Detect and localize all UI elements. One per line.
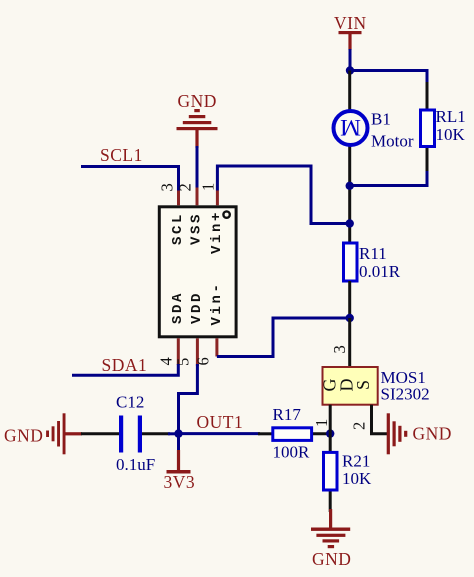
svg-text:SCL1: SCL1: [100, 145, 143, 165]
resistor RL1: [421, 82, 466, 173]
pin top of B1: [348, 71, 351, 111]
node junction OUT1/3V3: [174, 429, 182, 437]
svg-text:SDA1: SDA1: [102, 355, 148, 375]
svg-text:3V3: 3V3: [164, 472, 196, 492]
svg-text:VDD: VDD: [189, 291, 205, 324]
wire SDA1: [72, 364, 178, 375]
node junction gate: [326, 429, 334, 437]
svg-text:5: 5: [174, 358, 193, 366]
pin 5 stub: [196, 338, 199, 366]
svg-text:M: M: [340, 114, 361, 140]
pin bottom of R21: [329, 490, 332, 512]
pin 4 stub: [177, 338, 180, 365]
node junction drain: [346, 314, 354, 322]
svg-text:3: 3: [330, 345, 349, 353]
R21 body: [324, 452, 338, 490]
wire top horizontal to RL1: [350, 71, 427, 85]
svg-text:RL1: RL1: [436, 107, 466, 126]
power ground GND bottom: [311, 509, 351, 569]
svg-text:C12: C12: [116, 393, 144, 412]
pin 2 stub: [196, 188, 199, 206]
svg-text:S: S: [353, 380, 373, 390]
power ground GND top: [177, 91, 218, 148]
wire from Vin+ pin 1: [217, 166, 350, 224]
capacitor C12: [81, 393, 170, 475]
pin bottom of R11: [348, 281, 351, 318]
svg-text:Motor: Motor: [371, 132, 414, 151]
svg-text:GND: GND: [178, 91, 217, 111]
wire VIN stem: [349, 49, 352, 71]
svg-text:VSS: VSS: [188, 212, 204, 245]
power ground GND left: [4, 413, 82, 454]
node junction Vin+ wire: [346, 219, 354, 227]
pin bottom of B1: [348, 146, 351, 244]
wire OUT1 to R17: [179, 432, 261, 435]
svg-text:VIN: VIN: [334, 13, 367, 33]
svg-text:100R: 100R: [273, 443, 311, 462]
wire RL1 bottom to motor junction: [350, 171, 427, 186]
pin left of R17: [258, 432, 273, 435]
svg-text:1: 1: [312, 419, 331, 427]
power ground GND right: [387, 413, 452, 454]
svg-text:R21: R21: [342, 452, 370, 471]
svg-text:10K: 10K: [342, 469, 372, 488]
power port 3V3: [164, 434, 196, 492]
wire Vin- pin6 to drain node: [217, 318, 350, 357]
IC body: [157, 183, 237, 366]
pin bottom of RL1: [426, 147, 429, 174]
pin top of R21: [329, 434, 332, 453]
RL1 body: [421, 110, 435, 147]
node junction motor/RL1: [346, 182, 354, 190]
power port VIN: [334, 13, 367, 50]
R11 body: [344, 243, 358, 281]
pin 3 drain: [348, 318, 351, 367]
resistor R17: [258, 405, 330, 462]
svg-text:R17: R17: [273, 405, 302, 424]
pin 3 stub: [177, 191, 180, 206]
pin top of RL1: [426, 82, 429, 110]
pin left of C12: [81, 432, 119, 435]
resistor R21: [324, 434, 373, 512]
wire SCL1: [81, 167, 179, 192]
node junction VIN/motor/RL1: [346, 66, 354, 74]
svg-text:R11: R11: [359, 244, 387, 263]
svg-text:Vin+: Vin+: [209, 210, 225, 254]
mosfet MOS1: [312, 318, 430, 434]
MOS1 body: [323, 367, 378, 405]
svg-text:B1: B1: [371, 110, 391, 129]
wire C12 to node: [168, 432, 179, 435]
svg-text:GND: GND: [4, 426, 43, 446]
pin right of C12: [142, 432, 170, 435]
svg-text:GND: GND: [312, 549, 351, 569]
wire GND to VSS pin: [196, 146, 199, 188]
C12 right plate: [138, 416, 142, 453]
pin 2 source: [372, 405, 388, 434]
svg-text:GND: GND: [413, 424, 452, 444]
svg-text:0.01R: 0.01R: [359, 262, 401, 281]
svg-text:0.1uF: 0.1uF: [116, 455, 155, 474]
svg-text:SI2302: SI2302: [381, 385, 430, 404]
resistor R11: [344, 243, 401, 318]
R17 body: [273, 428, 312, 441]
svg-text:Vin-: Vin-: [209, 281, 225, 325]
svg-text:10K: 10K: [436, 125, 466, 144]
Vin+ polarity dot: [223, 211, 229, 217]
pin 1 gate: [329, 405, 332, 434]
wire VDD pin5 to OUT1 node: [179, 364, 198, 434]
motor circle: [334, 111, 368, 145]
svg-text:2: 2: [350, 422, 369, 430]
pin right of R17: [312, 432, 331, 435]
svg-text:1: 1: [199, 183, 218, 191]
pin 6 stub: [215, 338, 218, 356]
svg-text:SCL: SCL: [170, 212, 186, 245]
C12 left plate: [119, 416, 123, 453]
svg-text:2: 2: [176, 183, 195, 191]
svg-text:SDA: SDA: [170, 291, 186, 324]
svg-text:3: 3: [158, 183, 177, 191]
motor B1: [334, 71, 414, 245]
svg-text:OUT1: OUT1: [197, 412, 244, 432]
pin 1 stub: [216, 191, 219, 206]
